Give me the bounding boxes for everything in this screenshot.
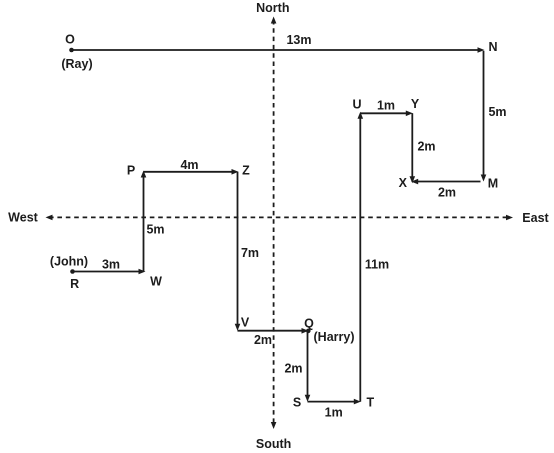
svg-text:13m: 13m bbox=[286, 33, 311, 47]
svg-text:M: M bbox=[488, 177, 498, 191]
svg-text:W: W bbox=[150, 275, 162, 289]
svg-text:Q: Q bbox=[304, 317, 314, 331]
svg-text:O: O bbox=[65, 33, 75, 47]
svg-text:2m: 2m bbox=[417, 140, 435, 154]
svg-text:2m: 2m bbox=[254, 333, 272, 347]
svg-text:11m: 11m bbox=[365, 258, 389, 272]
svg-text:X: X bbox=[399, 176, 408, 190]
svg-text:(Ray): (Ray) bbox=[61, 57, 92, 71]
svg-text:(Harry): (Harry) bbox=[314, 330, 355, 344]
svg-text:1m: 1m bbox=[377, 99, 395, 113]
svg-text:R: R bbox=[70, 277, 79, 291]
svg-text:2m: 2m bbox=[284, 362, 302, 376]
svg-text:N: N bbox=[488, 40, 497, 54]
svg-text:East: East bbox=[522, 211, 549, 225]
svg-text:Z: Z bbox=[242, 164, 250, 178]
svg-text:5m: 5m bbox=[146, 223, 164, 237]
svg-text:(John): (John) bbox=[50, 255, 88, 269]
svg-text:3m: 3m bbox=[102, 258, 120, 272]
svg-text:North: North bbox=[256, 1, 289, 15]
svg-text:V: V bbox=[241, 315, 250, 329]
svg-text:P: P bbox=[127, 164, 135, 178]
svg-text:U: U bbox=[352, 98, 361, 112]
svg-text:4m: 4m bbox=[180, 158, 198, 172]
svg-text:T: T bbox=[366, 396, 374, 410]
svg-text:South: South bbox=[256, 437, 291, 451]
svg-text:S: S bbox=[293, 396, 301, 410]
svg-text:West: West bbox=[8, 211, 38, 225]
svg-text:2m: 2m bbox=[438, 186, 456, 200]
svg-text:7m: 7m bbox=[241, 246, 259, 260]
svg-text:1m: 1m bbox=[325, 405, 343, 419]
svg-text:Y: Y bbox=[411, 97, 420, 111]
svg-text:5m: 5m bbox=[488, 105, 506, 119]
